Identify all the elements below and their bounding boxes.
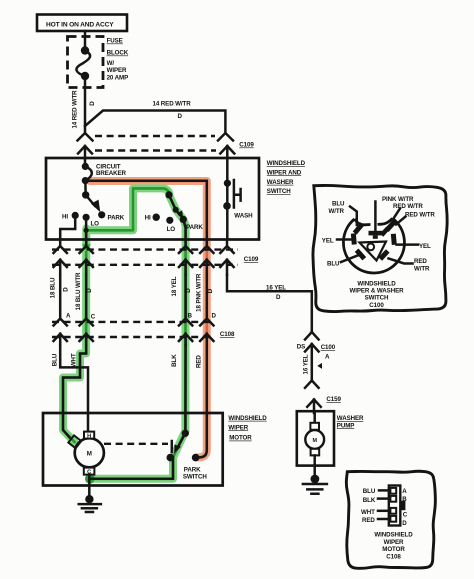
park switch actuator tick xyxy=(171,441,174,452)
terminal C (common) xyxy=(84,468,95,476)
svg-text:C109: C109 xyxy=(239,142,254,149)
svg-text:18 BLU: 18 BLU xyxy=(50,277,57,298)
switch box: windshield wiper and washer switch xyxy=(46,158,259,240)
svg-text:M: M xyxy=(87,451,92,458)
svg-text:BLU: BLU xyxy=(332,201,345,208)
contact HI (pole 1) xyxy=(62,212,79,221)
contact PARK (pole 1) xyxy=(98,211,125,221)
switch wiper arm, pole 1 xyxy=(86,195,101,212)
pointer line RED W/TR 1 xyxy=(393,209,401,221)
svg-text:RED W/TR: RED W/TR xyxy=(393,203,423,210)
wash switch xyxy=(223,158,253,240)
svg-text:D: D xyxy=(89,101,96,106)
svg-text:SWITCH: SWITCH xyxy=(183,473,207,480)
svg-text:LO: LO xyxy=(167,226,176,233)
label 18 PNK W/TR / D xyxy=(196,273,217,319)
highlight: green marker trace (LO speed circuit) xyxy=(63,188,186,483)
svg-text:D: D xyxy=(207,288,214,293)
svg-text:WIPER: WIPER xyxy=(384,539,404,546)
switch wiper arm, pole 2 xyxy=(169,195,183,219)
svg-text:WASHER: WASHER xyxy=(267,179,294,186)
wire 18 BLU W/TR pin C xyxy=(85,275,88,319)
svg-text:WIPER AND: WIPER AND xyxy=(267,169,302,176)
pointer line RED W/TR 2 xyxy=(396,217,406,225)
svg-text:WINDSHIELD: WINDSHIELD xyxy=(267,160,306,167)
svg-text:D: D xyxy=(185,288,192,293)
svg-text:WASH: WASH xyxy=(234,213,253,220)
svg-text:WIPER & WASHER: WIPER & WASHER xyxy=(350,288,405,295)
ground G (washer pump) xyxy=(303,475,327,494)
inset box: wiper motor connector face view xyxy=(346,471,435,568)
svg-text:D: D xyxy=(178,113,183,120)
svg-text:A: A xyxy=(325,353,330,360)
label 16 YEL / D (horizontal) xyxy=(266,284,286,301)
label washer pump xyxy=(337,415,364,429)
pin BLU W/TR (top-left) xyxy=(353,222,365,234)
svg-text:PARK: PARK xyxy=(108,214,125,221)
wire 18 BLU pin A xyxy=(59,275,62,319)
pin YEL (right) xyxy=(391,234,397,245)
pin PINK W/TR (top-center T) xyxy=(369,231,384,239)
label windshield wiper motor xyxy=(228,415,267,442)
svg-text:RED: RED xyxy=(362,517,375,524)
svg-text:DS: DS xyxy=(297,344,305,351)
svg-text:C108: C108 xyxy=(386,553,401,560)
svg-text:A: A xyxy=(402,488,407,495)
pointer line YEL right xyxy=(397,243,419,246)
wire 14 RED W/TR (top horizontal run) xyxy=(85,111,225,134)
inset box: wiper-washer switch connector face view xyxy=(313,185,447,311)
svg-text:BLOCK: BLOCK xyxy=(107,50,129,57)
contact PARK (pole 2) xyxy=(180,216,204,231)
svg-text:A: A xyxy=(66,312,71,319)
svg-text:WHT: WHT xyxy=(361,509,375,516)
svg-text:W/: W/ xyxy=(107,60,115,67)
svg-text:YEL: YEL xyxy=(419,243,431,250)
svg-text:RED W/TR: RED W/TR xyxy=(405,211,435,218)
circuit breaker xyxy=(82,158,92,184)
wire 14 RED W/TR (vertical from fuse) xyxy=(84,76,87,133)
svg-text:20 AMP: 20 AMP xyxy=(107,75,129,82)
motor box: windshield wiper motor xyxy=(43,413,223,486)
svg-text:16 YEL: 16 YEL xyxy=(303,354,310,374)
connector C108 xyxy=(52,319,235,346)
svg-text:HOT IN ON AND ACCY: HOT IN ON AND ACCY xyxy=(46,21,114,28)
pin BLU (bottom-left) xyxy=(355,249,366,261)
svg-text:HI: HI xyxy=(145,215,151,222)
svg-text:M: M xyxy=(312,438,317,444)
svg-text:PARK: PARK xyxy=(186,224,203,231)
svg-text:H: H xyxy=(87,434,91,440)
wire from hot feed into fuse block xyxy=(84,31,87,50)
labels connector C100 face xyxy=(322,196,436,272)
highlight: orange marker trace (park / PNK W-TR run circuit) xyxy=(90,181,207,457)
wire BLU (motor pigtail A) with crossover xyxy=(60,345,88,432)
label 14 RED W/TR (horizontal wire) xyxy=(153,101,192,121)
svg-text:BLU: BLU xyxy=(52,353,59,366)
contact LO (pole 1) xyxy=(83,214,100,228)
pin RED W/TR (bottom-right) xyxy=(378,249,389,260)
wire LO contact down to pin C xyxy=(85,217,88,239)
terminal H (high) xyxy=(84,432,94,440)
svg-text:18 BLU W/TR: 18 BLU W/TR xyxy=(75,272,82,310)
svg-text:D: D xyxy=(276,294,281,301)
pin A (BLU) xyxy=(363,488,408,495)
svg-text:14 RED W/TR: 14 RED W/TR xyxy=(153,101,192,108)
terminal L (low, diagonal) xyxy=(68,435,81,448)
pointer line BLU W/TR xyxy=(350,207,357,226)
connector C109 (top, feed side) xyxy=(78,133,255,158)
wire HI contact to pin A xyxy=(60,215,75,239)
connector C109 (lower, switch to harness) xyxy=(52,240,259,276)
label 18 BLU / D xyxy=(50,277,72,319)
svg-text:BLU: BLU xyxy=(363,488,376,495)
park switch dashed actuator link xyxy=(104,443,168,445)
svg-text:WINDSHIELD: WINDSHIELD xyxy=(228,415,267,422)
label windshield wiper and washer switch xyxy=(267,160,306,195)
wire 16 YEL wash run xyxy=(227,275,312,332)
svg-text:WINDSHIELD: WINDSHIELD xyxy=(357,280,396,287)
svg-text:16 YEL: 16 YEL xyxy=(266,284,286,291)
svg-text:WINDSHIELD: WINDSHIELD xyxy=(374,532,413,539)
connector C108 lock tab xyxy=(400,501,406,510)
svg-text:C108: C108 xyxy=(220,331,235,338)
svg-text:BLK: BLK xyxy=(171,354,178,367)
svg-text:YEL: YEL xyxy=(322,237,334,244)
svg-text:BREAKER: BREAKER xyxy=(96,170,127,177)
svg-text:RED: RED xyxy=(414,258,427,265)
svg-text:BLK: BLK xyxy=(363,497,376,504)
power label HOT IN ON AND ACCY xyxy=(37,15,127,32)
svg-text:PUMP: PUMP xyxy=(337,422,354,429)
svg-text:14 RED W/TR: 14 RED W/TR xyxy=(72,90,79,129)
connector C108 face (body) xyxy=(389,486,401,526)
svg-text:D: D xyxy=(86,288,93,293)
pointer line BLU bottom xyxy=(341,256,358,263)
wire WHT (motor pigtail C) with crossover xyxy=(63,345,86,437)
svg-text:LO: LO xyxy=(91,221,100,228)
wire PARK pole2 down to pin B xyxy=(183,219,185,239)
svg-text:18 YEL: 18 YEL xyxy=(171,276,178,296)
ground G101 (wiper motor) xyxy=(79,495,101,512)
svg-text:PINK W/TR: PINK W/TR xyxy=(382,196,414,203)
label 16 YEL (vertical) with direction arrow xyxy=(303,354,323,374)
washer pump motor M xyxy=(305,413,324,455)
svg-text:FUSE: FUSE xyxy=(107,38,123,45)
pointer line RED W/TR bottom xyxy=(389,259,413,264)
fuse F1 WIPER 20 AMP xyxy=(76,46,90,80)
label 18 BLU W/TR / D xyxy=(75,272,96,320)
wire LO branch to pole 2 pivot xyxy=(84,191,173,233)
wire 18 PNK W/TR pin D xyxy=(206,275,209,319)
svg-text:WIPER: WIPER xyxy=(107,67,127,74)
pin RED W/TR (top-right inner) xyxy=(380,227,390,237)
svg-text:RED: RED xyxy=(196,355,203,368)
label 14 RED W/TR (vertical wire) xyxy=(72,90,97,129)
wire pump to ground xyxy=(313,455,316,479)
svg-text:BLU: BLU xyxy=(327,260,340,267)
connector C159 xyxy=(305,381,341,414)
svg-text:C159: C159 xyxy=(326,396,341,403)
svg-text:SWITCH: SWITCH xyxy=(267,188,291,195)
green path motor C junction wire xyxy=(89,458,173,479)
svg-text:B: B xyxy=(402,496,407,503)
pointer line YEL left xyxy=(337,238,351,241)
label 18 YEL / D xyxy=(171,276,193,319)
svg-text:WASHER: WASHER xyxy=(337,415,364,422)
contact LO (pole 2) xyxy=(166,217,175,233)
pin YEL (left) xyxy=(351,233,357,244)
wire 18 YEL pin B xyxy=(184,275,187,319)
fuse block (dashed boundary) xyxy=(68,37,104,88)
svg-text:SWITCH: SWITCH xyxy=(365,295,389,302)
svg-text:C: C xyxy=(91,313,96,320)
wire breaker feed to pin D (under orange) xyxy=(85,181,207,240)
svg-text:MOTOR: MOTOR xyxy=(229,435,252,442)
svg-text:C109: C109 xyxy=(244,256,259,263)
wire motor C to ground xyxy=(88,475,91,500)
wiper motor M xyxy=(75,438,104,467)
label windshield wiper and washer switch C100 xyxy=(350,280,405,309)
svg-text:C: C xyxy=(403,512,408,519)
svg-text:C100: C100 xyxy=(321,344,336,351)
svg-text:D: D xyxy=(63,287,70,292)
svg-text:MOTOR: MOTOR xyxy=(382,546,405,553)
pointer line PINK W/TR xyxy=(374,202,377,231)
washer pump box xyxy=(297,411,334,465)
wire RED (motor pigtail D) xyxy=(197,345,207,457)
connector C100 face (round connector body) xyxy=(343,218,404,273)
connector C100 inner key triangle xyxy=(360,242,387,261)
splice DS and connector C100 xyxy=(297,332,336,381)
svg-text:W/TR: W/TR xyxy=(329,208,345,215)
pin B (BLK) xyxy=(363,496,408,504)
svg-text:D: D xyxy=(402,520,407,527)
label park switch xyxy=(183,466,207,480)
svg-text:C100: C100 xyxy=(369,302,384,309)
pin D (RED) xyxy=(362,516,407,527)
svg-text:WHT: WHT xyxy=(71,353,78,367)
label circuit breaker xyxy=(96,164,127,177)
fuse block value label xyxy=(107,38,129,82)
wire BLK (motor pigtail B) xyxy=(184,345,187,433)
contact HI (pole 2) xyxy=(145,214,160,222)
label windshield wiper motor C108 xyxy=(374,532,413,561)
svg-text:HI: HI xyxy=(62,213,68,220)
svg-text:PARK: PARK xyxy=(184,466,201,473)
svg-text:B: B xyxy=(188,312,193,319)
pin C (WHT) xyxy=(361,508,408,519)
svg-text:W/TR: W/TR xyxy=(414,265,430,272)
svg-text:WIPER: WIPER xyxy=(228,424,248,431)
park switch xyxy=(167,430,200,462)
svg-text:D: D xyxy=(212,312,217,319)
svg-text:18 PNK W/TR: 18 PNK W/TR xyxy=(196,273,203,312)
pin RED W/TR (top-right) xyxy=(385,219,397,232)
wire breaker to wiper arm pivot xyxy=(82,181,89,199)
